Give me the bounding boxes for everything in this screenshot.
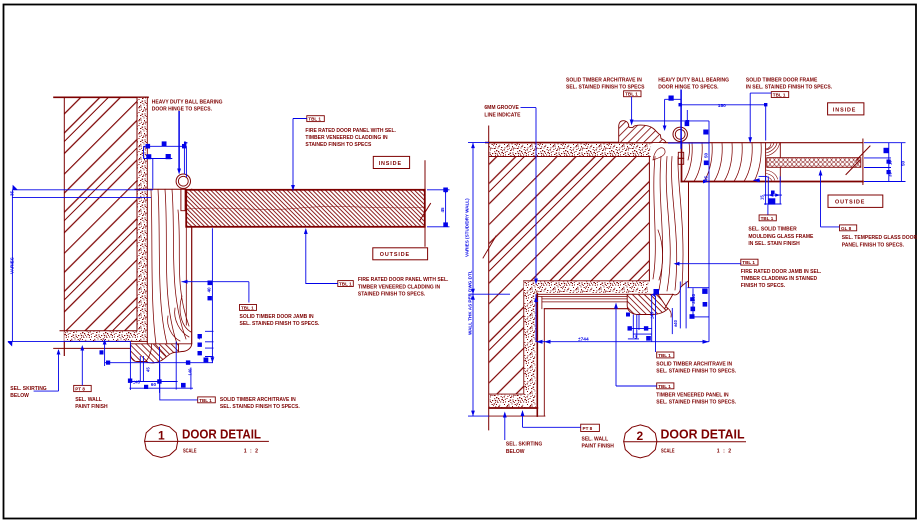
door jamb block detail 1 bbox=[135, 189, 192, 343]
wall hatch detail 1 bbox=[64, 97, 137, 330]
wall outline left edge bbox=[63, 97, 65, 355]
plaster strip vertical d2 bbox=[524, 293, 535, 407]
left dim bottom tick bbox=[468, 415, 489, 417]
TBL1 box door jamb bbox=[240, 305, 257, 311]
svg-text:1 : 2: 1 : 2 bbox=[244, 448, 259, 454]
svg-text:FIRE RATED DOOR JAMB IN SEL.: FIRE RATED DOOR JAMB IN SEL. bbox=[741, 269, 822, 275]
svg-text:35: 35 bbox=[888, 172, 893, 177]
sill lower dim line y381 bbox=[129, 381, 177, 383]
door panel break mark bbox=[420, 204, 431, 222]
right dims glass d2 bbox=[864, 142, 906, 144]
svg-text:40: 40 bbox=[197, 334, 202, 340]
wall bottom outer line d2 bbox=[489, 415, 545, 417]
svg-text:TIMBER CLADDING IN STAINED: TIMBER CLADDING IN STAINED bbox=[741, 276, 818, 282]
svg-text:WALL THK AS PER DWG DTL: WALL THK AS PER DWG DTL bbox=[468, 270, 473, 335]
svg-text:45: 45 bbox=[704, 175, 709, 181]
panel face line d2 bbox=[543, 309, 545, 416]
top speckle band d2 bbox=[489, 144, 650, 157]
svg-text:SOLID TIMBER DOOR FRAME: SOLID TIMBER DOOR FRAME bbox=[746, 78, 818, 84]
left dim vertical d1 bbox=[11, 190, 13, 342]
svg-text:FINISH TO SPECS.: FINISH TO SPECS. bbox=[741, 283, 786, 289]
svg-text:MOULDING GLASS FRAME: MOULDING GLASS FRAME bbox=[748, 234, 814, 240]
ext tick y143 d2 bbox=[668, 142, 709, 144]
skirting end cap bbox=[63, 341, 65, 355]
svg-text:INSIDE: INSIDE bbox=[833, 107, 856, 113]
svg-text:TBL 1: TBL 1 bbox=[199, 398, 212, 403]
svg-text:50: 50 bbox=[704, 152, 709, 158]
OUTSIDE box d2 bbox=[828, 195, 883, 207]
svg-text:SOLID TIMBER ARCHITRAVE IN: SOLID TIMBER ARCHITRAVE IN bbox=[566, 78, 642, 84]
svg-text:180: 180 bbox=[718, 103, 726, 109]
sill bottom line bbox=[64, 340, 147, 342]
sill lower dim line y362 bbox=[105, 362, 213, 364]
dim 180 line d2 bbox=[680, 105, 766, 141]
svg-text:TIMBER VENEERED CLADDING IN: TIMBER VENEERED CLADDING IN bbox=[305, 135, 388, 141]
svg-text:HEAVY DUTY BALL BEARING: HEAVY DUTY BALL BEARING bbox=[152, 100, 223, 106]
sill speckle band bbox=[64, 332, 147, 342]
svg-text:IN SEL. STAINED FINISH TO SPEC: IN SEL. STAINED FINISH TO SPECS. bbox=[746, 85, 833, 91]
frame corner arrow bbox=[685, 120, 689, 126]
jamb leader tick bbox=[182, 282, 249, 303]
frame end block d2 bbox=[765, 143, 767, 182]
svg-text:TBL 1: TBL 1 bbox=[308, 117, 321, 122]
DETAIL1END bbox=[483, 121, 870, 430]
svg-text:SEL. WALL: SEL. WALL bbox=[75, 397, 102, 403]
svg-text:SEL. SOLID TIMBER: SEL. SOLID TIMBER bbox=[748, 227, 797, 233]
TBL1 box architrave d1 bbox=[198, 397, 216, 403]
wall hatch bottom line bbox=[60, 330, 137, 332]
svg-text:FIRE RATED DOOR PANEL WITH SEL: FIRE RATED DOOR PANEL WITH SEL. bbox=[358, 277, 449, 283]
plaster face line vertical d2 bbox=[536, 294, 538, 417]
svg-text:6MM GROOVE: 6MM GROOVE bbox=[484, 105, 519, 111]
hinge circle inner bbox=[178, 176, 188, 186]
left ext line y190 bbox=[12, 189, 153, 191]
svg-text:TBL 1: TBL 1 bbox=[761, 216, 774, 221]
svg-text:TBL 1: TBL 1 bbox=[773, 93, 786, 98]
skirting leader bbox=[34, 350, 59, 391]
svg-text:45: 45 bbox=[146, 367, 151, 372]
TBL1 box architrave top d2 bbox=[624, 91, 641, 97]
fire rated jamb arrow bbox=[674, 262, 680, 266]
door stop lower d2 bbox=[627, 294, 668, 314]
GL8 box d2 bbox=[840, 225, 857, 231]
paint finish arrow d2 bbox=[521, 410, 525, 416]
PT8 box d1 bbox=[74, 385, 92, 391]
svg-text:FIRE RATED DOOR PANEL WITH SEL: FIRE RATED DOOR PANEL WITH SEL. bbox=[305, 128, 396, 134]
jamb wood grain d2 bbox=[653, 148, 683, 291]
veneered panel leader arrow bbox=[614, 303, 618, 309]
glass frame bottom cluster bbox=[754, 179, 761, 181]
svg-text:±45: ±45 bbox=[133, 380, 141, 385]
mid bottom cluster dims bbox=[632, 315, 634, 339]
head frame bottom line d2 bbox=[682, 181, 863, 183]
title octagon d1 bbox=[145, 425, 178, 458]
744 dim arrows bbox=[536, 340, 551, 344]
plaster strip bottom band d2 bbox=[490, 395, 536, 408]
svg-text:SOLID TIMBER ARCHITRAVE IN: SOLID TIMBER ARCHITRAVE IN bbox=[220, 397, 296, 403]
svg-text:OUTSIDE: OUTSIDE bbox=[835, 200, 865, 206]
architrave leader d1 bbox=[160, 364, 198, 400]
glass break slash upper bbox=[856, 146, 870, 161]
groove leader d2 bbox=[521, 108, 537, 283]
svg-text:TBL 1: TBL 1 bbox=[658, 384, 671, 389]
glass break slash lower bbox=[846, 160, 860, 175]
TBL1 box glass frame d2 bbox=[759, 215, 776, 221]
door panel detail 1 bbox=[186, 190, 425, 227]
interior corner lines d2 bbox=[523, 281, 525, 394]
jamb wood grain bbox=[151, 189, 191, 343]
INSIDE box d1 bbox=[373, 156, 409, 168]
mid cluster squares bbox=[628, 326, 632, 330]
x709 squares bbox=[703, 130, 708, 135]
svg-text:DOOR DETAIL: DOOR DETAIL bbox=[182, 426, 261, 441]
dim y99 hinge to frame bbox=[665, 98, 682, 100]
svg-text:DOOR DETAIL: DOOR DETAIL bbox=[661, 427, 745, 442]
svg-text:SCALE: SCALE bbox=[183, 448, 197, 454]
svg-text:LINE INDICATE: LINE INDICATE bbox=[484, 112, 521, 118]
svg-text:45: 45 bbox=[440, 207, 445, 213]
glass frame cluster marks bbox=[753, 178, 760, 182]
svg-text:1 : 2: 1 : 2 bbox=[717, 449, 732, 455]
svg-text:50: 50 bbox=[901, 160, 906, 166]
svg-text:TIMBER VENEERED CLADDING IN: TIMBER VENEERED CLADDING IN bbox=[358, 284, 441, 290]
svg-text:40: 40 bbox=[207, 287, 212, 293]
dim line top small lower bbox=[144, 158, 173, 160]
svg-text:SEL. STAINED FINISH TO SPECS.: SEL. STAINED FINISH TO SPECS. bbox=[656, 369, 736, 375]
hinge circle d2 inner bbox=[675, 129, 685, 139]
door panel grain line bbox=[187, 207, 424, 210]
head frame top line d2 bbox=[664, 142, 863, 144]
paint finish leader d1 bbox=[81, 347, 83, 386]
architrave bottom leader arrow bbox=[652, 291, 657, 298]
title octagon d2 bbox=[624, 425, 657, 458]
svg-text:TBL 1: TBL 1 bbox=[339, 282, 352, 287]
svg-text:VARIES: VARIES bbox=[10, 257, 15, 274]
left ext line y341 bbox=[8, 340, 130, 342]
jamb block d2 bbox=[649, 143, 688, 288]
wall face line bbox=[136, 97, 138, 330]
end block right edge bbox=[779, 143, 781, 182]
veneered panel leader d2 bbox=[616, 304, 657, 386]
dim 180 dots bbox=[679, 103, 682, 106]
hinge plate bbox=[181, 189, 185, 210]
wall hatch lower column d2 bbox=[489, 281, 524, 394]
wall hatch upper block d2 bbox=[489, 157, 649, 281]
svg-text:OUTSIDE: OUTSIDE bbox=[380, 252, 410, 258]
right dim arrows bbox=[444, 190, 448, 194]
INSIDE box d2 bbox=[828, 103, 864, 115]
stop moulding curve d2 bbox=[658, 294, 673, 309]
right dim squares bbox=[884, 148, 889, 153]
hinge leader d2 bbox=[680, 90, 682, 149]
svg-text:DOOR HINGE TO SPECS.: DOOR HINGE TO SPECS. bbox=[152, 107, 213, 113]
svg-text:SEL. STAINED FINISH TO SPECS.: SEL. STAINED FINISH TO SPECS. bbox=[220, 404, 300, 410]
svg-text:3: 3 bbox=[635, 335, 638, 340]
arrows left dim bbox=[471, 143, 475, 149]
svg-text:BELOW: BELOW bbox=[10, 393, 29, 399]
sill lower dim line y387 bbox=[129, 387, 193, 389]
groove leader arrow bbox=[534, 279, 538, 285]
svg-text:SCALE: SCALE bbox=[661, 449, 675, 455]
architrave profile top d2 bbox=[619, 121, 666, 143]
TBL1 box architrave bottom d2 bbox=[657, 352, 674, 358]
hatch bottom line d2 bbox=[489, 393, 524, 395]
arrow blobs and boxes top cluster bbox=[146, 144, 151, 149]
TBL1 box veneered panel d2 bbox=[657, 383, 674, 389]
TBL1 box door frame d2 bbox=[771, 92, 788, 98]
TBL1 box fire rated jamb d2 bbox=[741, 259, 758, 265]
svg-text:STAINED FINISH TO SPECS.: STAINED FINISH TO SPECS. bbox=[358, 292, 426, 298]
head frame grain d2 bbox=[684, 143, 761, 182]
wall top line bbox=[54, 96, 148, 98]
skirting arrow d2 bbox=[503, 412, 507, 418]
svg-text:TBL 1: TBL 1 bbox=[658, 353, 671, 358]
hinge plate d2 bbox=[678, 152, 683, 158]
small ticks right of jamb bottom bbox=[205, 331, 214, 356]
svg-text:BELOW: BELOW bbox=[506, 449, 525, 455]
stop grain diag bbox=[155, 344, 166, 356]
left dim arrows bbox=[10, 185, 17, 192]
svg-text:140: 140 bbox=[188, 368, 193, 376]
wall top line d2 bbox=[486, 142, 652, 144]
wall bottom thick line d2 bbox=[489, 407, 537, 409]
svg-text:1: 1 bbox=[158, 429, 165, 443]
leader TBL1 top bbox=[293, 119, 307, 187]
architrave inner curve bbox=[146, 344, 152, 362]
plaster strip bbox=[138, 98, 148, 341]
section cut line d2 bbox=[862, 139, 864, 185]
fire rated jamb leader d2 bbox=[675, 263, 741, 265]
dim right tick bottom bbox=[427, 226, 450, 228]
short leader frame corner bbox=[686, 110, 688, 124]
svg-text:PT 8: PT 8 bbox=[583, 426, 593, 431]
door panel cut line bbox=[424, 161, 426, 247]
svg-text:GL 8: GL 8 bbox=[841, 226, 852, 231]
svg-text:SEL. TEMPERED GLASS DOOR: SEL. TEMPERED GLASS DOOR bbox=[842, 235, 918, 241]
glass panel band d2 bbox=[767, 158, 861, 168]
svg-text:VARIES (STUD/DRY WALL): VARIES (STUD/DRY WALL) bbox=[465, 198, 470, 257]
dim line top small upper bbox=[144, 145, 187, 147]
wall break mark d2 bbox=[483, 236, 496, 258]
svg-text:STAINED FINISH TO SPECS: STAINED FINISH TO SPECS bbox=[305, 142, 372, 148]
svg-text:TIMBER VENEERED PANEL IN: TIMBER VENEERED PANEL IN bbox=[656, 392, 729, 398]
svg-text:SEL. STAINED FINISH TO SPECS.: SEL. STAINED FINISH TO SPECS. bbox=[240, 321, 320, 327]
leader heavy duty hinge bbox=[178, 111, 180, 170]
stop inner curve d2 bbox=[668, 308, 672, 317]
svg-text:IN SEL. STAIN FINISH: IN SEL. STAIN FINISH bbox=[748, 241, 800, 247]
architrave bottom leader d2 bbox=[655, 296, 657, 352]
svg-text:SOLID TIMBER DOOR JAMB IN: SOLID TIMBER DOOR JAMB IN bbox=[240, 314, 315, 320]
svg-text:2: 2 bbox=[637, 429, 644, 443]
svg-text:SEL. SKIRTING: SEL. SKIRTING bbox=[506, 442, 543, 448]
leader arrows bbox=[291, 185, 295, 191]
svg-text:SEL. STAINED FINISH TO SPECS: SEL. STAINED FINISH TO SPECS bbox=[566, 85, 645, 91]
dim y120 line d2 bbox=[633, 120, 709, 122]
svg-text:PAINT FINISH: PAINT FINISH bbox=[75, 404, 108, 410]
svg-text:10: 10 bbox=[888, 160, 893, 165]
svg-text:PAINT FINISH: PAINT FINISH bbox=[582, 444, 615, 450]
svg-text:±744: ±744 bbox=[578, 336, 589, 342]
svg-text:PANEL FINISH TO SPECS.: PANEL FINISH TO SPECS. bbox=[842, 242, 905, 248]
door rebate line below panel bbox=[185, 228, 187, 325]
svg-text:SEL. WALL: SEL. WALL bbox=[582, 437, 609, 443]
svg-text:INSIDE: INSIDE bbox=[379, 161, 402, 167]
left dim top tick bbox=[468, 142, 489, 144]
svg-text:TBL 1: TBL 1 bbox=[241, 305, 254, 310]
hinge circle d2 outer bbox=[673, 127, 687, 141]
title line d2 bbox=[623, 441, 746, 443]
glass leader arrow bbox=[819, 170, 823, 176]
TBL1 box fire rated top bbox=[307, 116, 325, 122]
door stop profile detail 1 bbox=[131, 344, 179, 363]
wall left edge d2 bbox=[488, 126, 490, 430]
svg-text:DOOR HINGE TO SPECS.: DOOR HINGE TO SPECS. bbox=[658, 85, 719, 91]
ext verticals bottom cluster bbox=[104, 342, 106, 367]
svg-text:SEL. STAINED FINISH TO SPECS.: SEL. STAINED FINISH TO SPECS. bbox=[656, 400, 736, 406]
long vertical dim x709 bbox=[708, 121, 710, 342]
svg-text:PT 8: PT 8 bbox=[75, 387, 85, 392]
svg-text:±45: ±45 bbox=[650, 311, 655, 319]
door frame leader d2 bbox=[750, 93, 771, 141]
TBL1 box fire rated bottom bbox=[338, 281, 354, 287]
architrave top arrow bbox=[630, 120, 634, 126]
dim right side vertical bbox=[445, 190, 447, 227]
dim ext verticals top cluster bbox=[143, 146, 145, 158]
dim right tick top bbox=[427, 189, 450, 191]
PT8 box d2 bbox=[581, 424, 600, 431]
door frame leader arrow bbox=[748, 137, 752, 143]
OUTSIDE box d1 bbox=[373, 248, 428, 260]
skirting line below sill bbox=[54, 347, 137, 349]
svg-text:TBL 1: TBL 1 bbox=[625, 92, 638, 97]
svg-text:60: 60 bbox=[151, 382, 157, 387]
svg-text:TBL 1: TBL 1 bbox=[742, 260, 755, 265]
skirting leader d2 bbox=[504, 413, 506, 440]
left ext line y197 bbox=[12, 196, 151, 198]
square label dim y99 bbox=[669, 96, 674, 101]
bottom cluster marks bbox=[57, 349, 61, 355]
hinge circle outer bbox=[176, 174, 190, 188]
architrave top leader d2 bbox=[631, 97, 633, 124]
paint finish leader d2 bbox=[523, 412, 581, 428]
jamb bottom curve d2 bbox=[673, 281, 689, 295]
main dim 744 line bbox=[536, 341, 709, 343]
left wall dim vertical d2 bbox=[472, 143, 474, 417]
left dim mid tick y294 bbox=[470, 293, 510, 295]
lower speckle band horizontal d2 bbox=[524, 282, 649, 294]
svg-text:±150: ±150 bbox=[691, 293, 696, 304]
end block grain top bbox=[766, 143, 780, 181]
jamb bottom edge piece bbox=[179, 344, 192, 352]
svg-text:±40: ±40 bbox=[673, 319, 678, 327]
glass leader d2 bbox=[821, 171, 840, 227]
speckle band bottom line d2 bbox=[489, 156, 650, 158]
long vertical dim x212 bbox=[211, 228, 213, 362]
veneer panel lines d2 bbox=[537, 294, 650, 308]
svg-text:SOLID TIMBER ARCHITRAVE IN: SOLID TIMBER ARCHITRAVE IN bbox=[656, 362, 732, 368]
plaster edge line bbox=[146, 97, 148, 189]
svg-text:15: 15 bbox=[760, 195, 765, 200]
svg-text:35: 35 bbox=[10, 190, 15, 196]
title line d1 bbox=[144, 440, 269, 442]
svg-text:HEAVY DUTY BALL BEARING: HEAVY DUTY BALL BEARING bbox=[658, 78, 729, 84]
leader TBL1 bottom panel bbox=[306, 231, 338, 284]
